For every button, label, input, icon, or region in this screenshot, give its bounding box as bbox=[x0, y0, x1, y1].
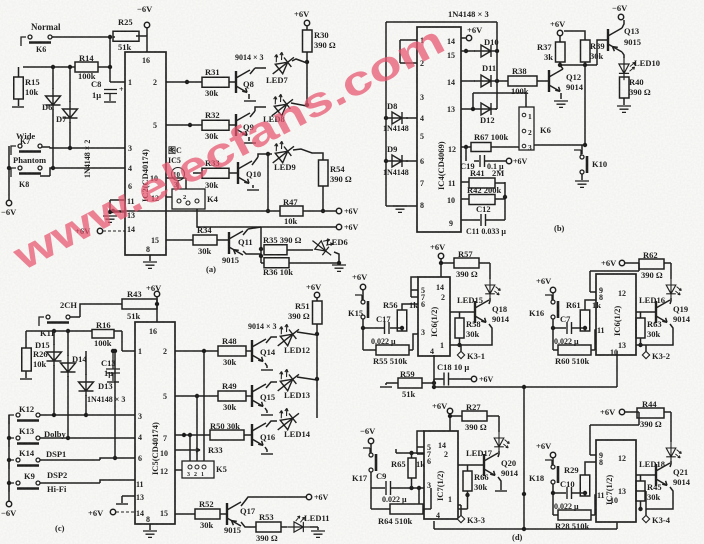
wire pin10 to K4 bbox=[166, 178, 186, 189]
wire pin10 arrow R33 bbox=[175, 448, 200, 452]
wire Q9 collector bbox=[250, 107, 266, 117]
ground pin8 bbox=[393, 206, 407, 212]
resistor R63 bbox=[636, 318, 645, 338]
wire pin5 row bbox=[175, 395, 252, 397]
op-amp IC2 box bbox=[125, 52, 166, 255]
wire pin1 pin2 hook bbox=[400, 40, 417, 63]
LED14 bbox=[270, 403, 303, 435]
wire pin13 to K3-2 bbox=[636, 345, 646, 351]
wire Q8 collector bbox=[250, 68, 266, 74]
wire pins 11 13 to ground bbox=[110, 200, 125, 214]
terminal -6V bottom left bbox=[6, 200, 11, 205]
wire pin5 row bbox=[166, 124, 236, 126]
resistor R45 bbox=[636, 481, 645, 501]
wire IC2 ground bbox=[149, 255, 151, 261]
LED7 bbox=[265, 47, 298, 79]
LED13 bbox=[270, 364, 303, 396]
wire R35 R36 bus bbox=[260, 227, 262, 263]
wire bus verticals bbox=[434, 351, 617, 529]
LED17 bbox=[494, 432, 509, 454]
vertical to K14 row bbox=[114, 351, 116, 458]
wire Q12 node to Q13 base bbox=[560, 40, 608, 65]
transistor Q16 bbox=[252, 423, 266, 446]
ground bbox=[103, 216, 117, 222]
wire R47 row bbox=[113, 210, 336, 212]
transistor Q8 bbox=[236, 70, 250, 93]
wire LED8 to rail bbox=[249, 103, 307, 141]
wire pin1 to K3-1 bbox=[450, 345, 461, 351]
wire pin13 to K3-4 bbox=[636, 491, 646, 515]
wire K4 down to +6V row bbox=[197, 209, 336, 227]
resistor R15 bbox=[14, 77, 24, 99]
switch K4 bbox=[172, 189, 205, 209]
diode D7 bbox=[63, 101, 78, 123]
quadrant (a) bbox=[9, 28, 147, 200]
wire K11 to R43 bbox=[70, 304, 122, 317]
transistor Q19 bbox=[670, 298, 671, 304]
wire top loop bbox=[386, 22, 497, 206]
switch K5 bbox=[182, 461, 214, 478]
wires into K5 bbox=[190, 351, 204, 461]
terminal +6V lower right bbox=[336, 224, 341, 229]
resistor R26 bbox=[22, 348, 32, 371]
wire LED9 to R54 bbox=[293, 149, 323, 160]
resistor R66 bbox=[463, 471, 472, 491]
wire +6V rail bbox=[306, 26, 308, 105]
resistor R54 bbox=[319, 160, 329, 186]
ground bbox=[143, 262, 157, 268]
terminal +6V right bbox=[336, 208, 341, 213]
wire pin15 row bbox=[166, 239, 229, 241]
transistor Q20 bbox=[498, 451, 499, 457]
transistor Q21 bbox=[670, 461, 671, 467]
resistor R55 bbox=[376, 345, 409, 355]
wire Q17 collector to +6V bbox=[241, 497, 306, 506]
op-amp IC7b box bbox=[596, 440, 636, 522]
wire R14 row bbox=[23, 37, 125, 82]
transistor Q18 bbox=[489, 298, 490, 304]
op-amp IC7a box bbox=[424, 431, 458, 519]
transistor Q17 bbox=[227, 502, 241, 526]
wire K7 to pin3 bbox=[40, 147, 125, 148]
wire pin12 to K4 bbox=[166, 196, 172, 198]
op-amp IC6a box bbox=[418, 277, 450, 356]
diode D6 bbox=[46, 88, 61, 110]
wire pin15 row bbox=[175, 513, 227, 515]
middle bus R59 bbox=[385, 383, 387, 385]
switch K6 selector bbox=[519, 107, 534, 150]
LED6 bbox=[309, 232, 338, 260]
wire Q11 collector to +6V row bbox=[243, 227, 261, 254]
resistor R40 bbox=[620, 77, 630, 98]
transistor Q10 bbox=[238, 161, 252, 184]
left rail -6V bbox=[8, 415, 10, 501]
resistor R58 bbox=[455, 318, 464, 338]
resistor R64 bbox=[390, 504, 423, 514]
ground IC5 bbox=[143, 531, 157, 537]
resistor R36 bbox=[264, 258, 289, 268]
transistor Q12 bbox=[549, 69, 563, 92]
resistor R39 bbox=[581, 40, 591, 62]
resistor R60 bbox=[558, 345, 591, 355]
terminal +6V pin14 bbox=[461, 37, 466, 39]
LED10 bbox=[622, 52, 624, 58]
wire pin2 row bbox=[175, 350, 252, 352]
op-amp IC6b box bbox=[596, 274, 636, 355]
ground bbox=[332, 265, 346, 271]
wire R54 down bbox=[268, 154, 323, 211]
wire Q12 collector emitter bbox=[560, 62, 563, 99]
LED12 bbox=[270, 319, 303, 351]
resistor R53 bbox=[241, 522, 256, 527]
wire pin12 stub bbox=[175, 469, 182, 471]
LED9 bbox=[265, 136, 298, 168]
wire top row bbox=[52, 28, 147, 52]
resistor R28 bbox=[558, 510, 591, 520]
node junction bbox=[108, 35, 112, 39]
LED11 bbox=[287, 516, 310, 532]
LED16 bbox=[666, 279, 681, 301]
wire pin13 hook bbox=[122, 496, 135, 503]
transistor Q15 bbox=[252, 384, 266, 407]
wire node down to K10 bbox=[582, 65, 585, 154]
wire Q10 collector bbox=[252, 154, 272, 188]
LED18 bbox=[666, 442, 681, 464]
transistor Q13 bbox=[608, 28, 622, 52]
transistor Q9 bbox=[236, 113, 250, 136]
LED15 bbox=[485, 279, 500, 301]
wire pin2 row bbox=[166, 81, 236, 83]
wire R38 to Q12 bbox=[537, 80, 549, 82]
wire left rail bbox=[9, 67, 70, 200]
transistor Q11 bbox=[229, 231, 243, 255]
LED8 bbox=[264, 89, 297, 121]
op-amp IC4 box bbox=[417, 27, 461, 232]
op-amp IC5 box bbox=[135, 322, 175, 524]
wire K8 to pin4 bbox=[40, 168, 125, 176]
wire LED6 to ground bbox=[261, 250, 339, 263]
wire R33 row bbox=[193, 172, 238, 174]
transistor Q14 bbox=[252, 339, 266, 362]
switch K10 bbox=[574, 150, 587, 174]
wire R16 row bbox=[26, 331, 135, 351]
wire pin5 pin7 tie bbox=[411, 277, 418, 297]
wire LED7 to rail bbox=[249, 59, 307, 99]
